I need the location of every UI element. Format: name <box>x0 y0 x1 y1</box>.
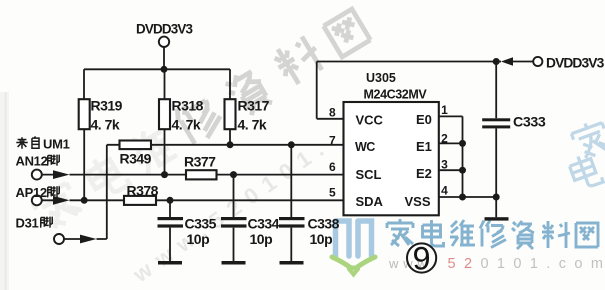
svg-text:SDA: SDA <box>356 194 384 209</box>
svg-text:1: 1 <box>441 103 448 117</box>
svg-text:D31: D31 <box>16 216 39 231</box>
svg-text:4: 4 <box>441 184 448 198</box>
svg-text:SCL: SCL <box>356 167 382 182</box>
svg-text:C335: C335 <box>185 216 217 232</box>
svg-text:C334: C334 <box>248 216 280 232</box>
svg-text:8: 8 <box>329 106 336 120</box>
svg-text:R318: R318 <box>172 98 204 114</box>
svg-text:DVDD3V3: DVDD3V3 <box>546 56 605 71</box>
svg-text:VSS: VSS <box>405 194 431 209</box>
svg-text:10p: 10p <box>187 231 210 247</box>
svg-text:UM1: UM1 <box>43 137 70 152</box>
svg-text:WC: WC <box>355 140 375 154</box>
svg-text:DVDD3V3: DVDD3V3 <box>136 22 193 37</box>
svg-text:R317: R317 <box>238 98 270 114</box>
svg-text:R349: R349 <box>120 151 152 167</box>
svg-text:E2: E2 <box>416 166 432 181</box>
svg-text:C338: C338 <box>308 216 340 232</box>
svg-text:3: 3 <box>441 157 448 171</box>
svg-text:2: 2 <box>441 131 448 145</box>
svg-text:AN12: AN12 <box>16 154 48 169</box>
svg-text:520101.com.: 520101.com. <box>448 256 605 272</box>
svg-text:AP12: AP12 <box>16 185 47 200</box>
svg-text:4. 7k: 4. 7k <box>172 117 201 133</box>
svg-text:M24C32MV: M24C32MV <box>364 88 428 102</box>
svg-text:E1: E1 <box>416 139 432 154</box>
svg-text:9: 9 <box>413 241 431 277</box>
svg-text:C333: C333 <box>513 115 546 131</box>
svg-text:4. 7k: 4. 7k <box>238 117 267 133</box>
svg-text:R377: R377 <box>184 154 216 170</box>
svg-text:10p: 10p <box>310 231 333 247</box>
svg-text:10p: 10p <box>250 231 273 247</box>
svg-text:5: 5 <box>329 186 336 200</box>
svg-text:E0: E0 <box>416 112 432 127</box>
svg-text:6: 6 <box>329 160 336 174</box>
svg-text:R319: R319 <box>91 98 123 114</box>
svg-text:VCC: VCC <box>356 113 384 128</box>
svg-text:U305: U305 <box>366 71 396 85</box>
svg-text:7: 7 <box>329 134 336 148</box>
svg-text:4. 7k: 4. 7k <box>91 117 120 133</box>
svg-text:R378: R378 <box>127 183 159 199</box>
